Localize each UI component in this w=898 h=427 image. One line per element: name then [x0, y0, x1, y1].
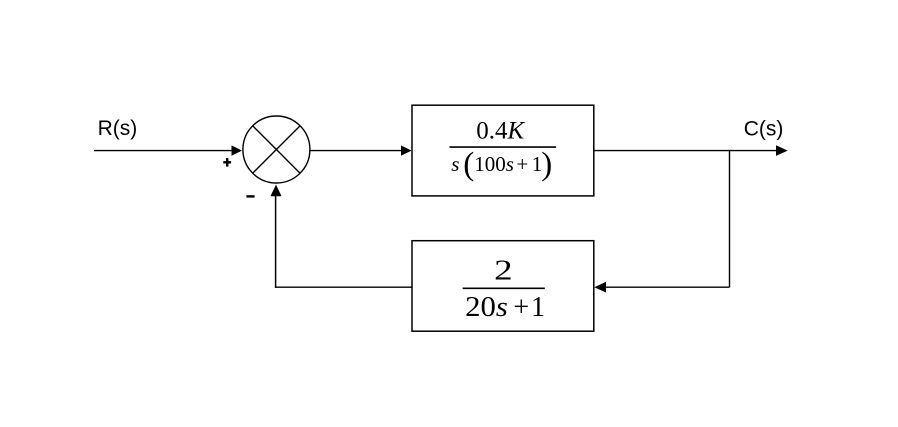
wire: input line into summing junction — [94, 150, 232, 152]
svg-text:100s: 100s — [474, 152, 514, 176]
block G denominator s(100s+1) — [451, 147, 552, 183]
plus sign — [223, 158, 231, 167]
block H fraction bar — [463, 287, 545, 289]
svg-text:0.4K: 0.4K — [476, 118, 525, 145]
block G fraction bar — [450, 146, 557, 148]
summing junction circle — [243, 116, 310, 183]
svg-text:+: + — [513, 292, 529, 323]
svg-text:(: ( — [463, 147, 474, 183]
arrowhead: into block G — [401, 145, 412, 155]
summing junction X diagonal (TR-BL) — [253, 126, 300, 173]
wire: block G output to C(s) — [594, 150, 777, 152]
wire: summing junction to block G — [310, 150, 402, 152]
wire: block H output to feedback riser — [275, 286, 412, 288]
minus sign — [246, 195, 254, 197]
arrowhead: output C(s) — [776, 145, 788, 156]
svg-text:): ) — [541, 147, 552, 183]
svg-text:C(s): C(s) — [744, 117, 784, 140]
wire: feedback riser up to summing junction — [275, 196, 277, 288]
summing junction X diagonal (TL-BR) — [253, 126, 300, 173]
arrowhead: input into summing junction — [232, 145, 243, 155]
block G rectangle — [412, 105, 594, 196]
svg-text:1: 1 — [531, 292, 545, 323]
svg-text:20s: 20s — [465, 292, 508, 323]
block H denominator 20s+1 — [465, 292, 545, 323]
svg-text:s: s — [451, 152, 459, 176]
wire: branch vertical down from output — [729, 150, 731, 287]
block H rectangle — [412, 241, 594, 332]
arrowhead: into block H (pointing left) — [594, 282, 606, 293]
wire: feedback horizontal into block H — [606, 286, 730, 288]
svg-text:R(s): R(s) — [98, 117, 138, 140]
arrowhead: into summing junction bottom (pointing up) — [270, 185, 281, 197]
svg-text:+: + — [516, 152, 528, 176]
svg-text:2: 2 — [494, 255, 512, 286]
